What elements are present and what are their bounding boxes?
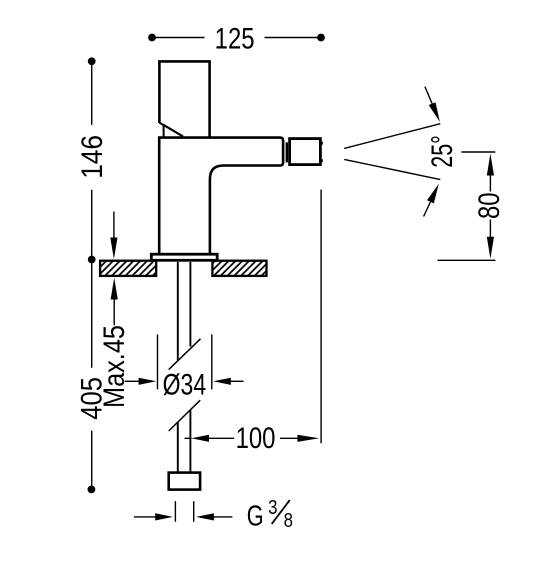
supply pipe bbox=[178, 262, 191, 473]
dim O34 arrow right bbox=[213, 378, 231, 385]
svg-text:8: 8 bbox=[284, 508, 293, 531]
lever notch bbox=[159, 123, 163, 138]
supply nut bbox=[169, 473, 200, 490]
aerator tick bottom bbox=[321, 159, 323, 162]
dim 80 ref line bottom bbox=[438, 259, 496, 261]
dim G3/8 extension lines bbox=[175, 501, 193, 522]
countertop left bbox=[100, 261, 156, 276]
dim O34 arrow left bbox=[125, 380, 140, 382]
dim 125 line bbox=[152, 37, 321, 39]
dim G3/8 arrow right bbox=[196, 513, 214, 520]
svg-text:25°: 25° bbox=[427, 135, 459, 168]
dim 125 dot right bbox=[317, 34, 325, 42]
dim O34 extension lines bbox=[158, 334, 212, 389]
dim 100 line right bbox=[280, 437, 297, 439]
dim Max.45 arrow down bbox=[113, 212, 115, 240]
dim 125 dot left bbox=[148, 34, 156, 42]
svg-text:100: 100 bbox=[236, 421, 276, 454]
faucet handle bbox=[159, 61, 209, 137]
pipe break upper bbox=[169, 339, 201, 370]
svg-text:80: 80 bbox=[473, 192, 506, 219]
spray angle lower line bbox=[344, 159, 440, 179]
spray angle arrow top bbox=[425, 87, 432, 104]
countertop right bbox=[212, 261, 266, 276]
wall reference line bbox=[320, 190, 322, 444]
aerator tick top bbox=[321, 142, 323, 145]
svg-text:3: 3 bbox=[268, 495, 277, 518]
dim 80 ref line top bbox=[461, 151, 495, 153]
dim dot mid bbox=[88, 256, 96, 264]
dim dot bottom bbox=[88, 486, 96, 494]
svg-text:125: 125 bbox=[215, 22, 255, 55]
dim 100 line left bbox=[185, 437, 192, 439]
dim 146/405 line bbox=[91, 61, 93, 489]
svg-text:Ø34: Ø34 bbox=[163, 368, 206, 401]
dim 80 arrow up bbox=[487, 154, 494, 176]
spout connector bbox=[286, 142, 289, 162]
dim Max.45 arrow up bbox=[111, 278, 118, 300]
dim G3/8 arrow left bbox=[134, 516, 157, 518]
aerator bbox=[290, 139, 321, 165]
svg-text:G: G bbox=[247, 501, 264, 533]
base flange bbox=[151, 254, 217, 260]
dim 80 arrow down bbox=[489, 220, 491, 238]
pipe break lower bbox=[169, 400, 201, 431]
dim dot top bbox=[88, 57, 96, 65]
svg-text:146: 146 bbox=[75, 135, 108, 179]
spray angle arrow bottom bbox=[424, 202, 431, 217]
spray angle upper line bbox=[344, 124, 440, 149]
faucet body bbox=[159, 138, 283, 255]
svg-text:Max.45: Max.45 bbox=[97, 325, 130, 408]
